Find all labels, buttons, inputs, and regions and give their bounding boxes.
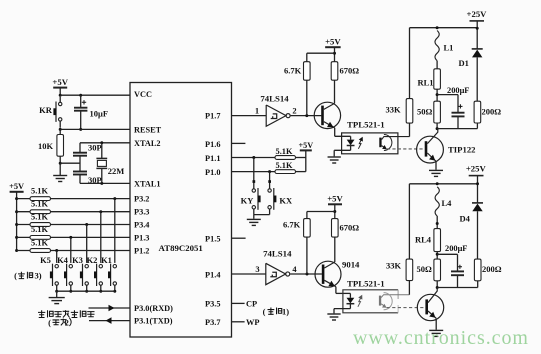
svg-text:6.7K: 6.7K [283, 220, 301, 230]
svg-text:WP: WP [246, 318, 260, 327]
svg-text:D4: D4 [460, 213, 471, 223]
svg-text:74LS14: 74LS14 [260, 93, 289, 103]
svg-text:XTAL1: XTAL1 [134, 179, 161, 188]
svg-text:P1.5: P1.5 [205, 235, 220, 244]
svg-text:200μF: 200μF [445, 244, 467, 253]
svg-text:KX: KX [279, 195, 293, 205]
svg-text:RL1: RL1 [418, 78, 434, 88]
svg-text:www.cntronics.com: www.cntronics.com [353, 327, 529, 349]
svg-text:L4: L4 [442, 198, 453, 208]
svg-text:P1.3: P1.3 [134, 233, 149, 242]
svg-text:TPL521-1: TPL521-1 [347, 279, 385, 289]
svg-text:K3: K3 [72, 255, 83, 265]
svg-text:200Ω: 200Ω [482, 106, 502, 116]
svg-text:P3.2: P3.2 [134, 195, 149, 204]
svg-text:VCC: VCC [134, 90, 152, 99]
svg-text:RESET: RESET [134, 125, 162, 134]
svg-text:3: 3 [255, 264, 259, 274]
svg-text:P3.1(TXD): P3.1(TXD) [134, 317, 173, 326]
svg-text:10K: 10K [38, 141, 54, 151]
svg-text:P3.4: P3.4 [134, 221, 149, 230]
svg-text:+25V: +25V [466, 164, 487, 174]
svg-text:74LS14: 74LS14 [263, 249, 292, 259]
svg-text:200μF: 200μF [447, 86, 469, 95]
svg-text:D1: D1 [459, 58, 469, 68]
svg-text:RL4: RL4 [415, 235, 432, 245]
svg-text:K1: K1 [101, 255, 112, 265]
svg-text:9014: 9014 [342, 260, 360, 270]
svg-text:670Ω: 670Ω [340, 222, 360, 232]
svg-text:30P: 30P [88, 175, 102, 185]
svg-text:KR: KR [39, 105, 53, 115]
svg-text:5.1K: 5.1K [31, 238, 48, 247]
svg-text:P1.0: P1.0 [205, 168, 220, 177]
svg-text:50Ω: 50Ω [417, 106, 433, 116]
svg-text:TPL521-1: TPL521-1 [347, 120, 385, 130]
svg-text:P3.5: P3.5 [205, 300, 220, 309]
svg-text:5.1K: 5.1K [31, 225, 48, 234]
svg-text:670Ω: 670Ω [340, 65, 360, 75]
svg-text:6.7K: 6.7K [284, 65, 302, 75]
svg-text:CP: CP [246, 300, 257, 309]
svg-text:5.1K: 5.1K [31, 212, 48, 221]
svg-text:P1.1: P1.1 [205, 154, 220, 163]
svg-text:+5V: +5V [325, 37, 341, 47]
svg-text:K2: K2 [87, 255, 98, 265]
svg-text:XTAL2: XTAL2 [134, 139, 161, 148]
svg-text:P1.7: P1.7 [205, 112, 220, 121]
svg-text:+5V: +5V [298, 141, 313, 150]
svg-text:(: ( [14, 271, 17, 281]
svg-text:5.1K: 5.1K [31, 186, 48, 195]
svg-text:K5: K5 [40, 255, 51, 265]
svg-text:+5V: +5V [52, 77, 68, 87]
svg-text:50Ω: 50Ω [417, 264, 433, 274]
svg-text:P1.2: P1.2 [134, 247, 149, 256]
svg-text:5.1K: 5.1K [276, 147, 293, 156]
svg-text:KY: KY [241, 195, 254, 205]
svg-text:22M: 22M [108, 166, 125, 176]
svg-text:P3.7: P3.7 [205, 318, 220, 327]
svg-text:3): 3) [34, 271, 41, 281]
svg-text:P1.4: P1.4 [205, 270, 220, 279]
svg-text:L1: L1 [444, 43, 454, 53]
svg-text:AT89C2051: AT89C2051 [159, 243, 203, 253]
svg-text:K4: K4 [57, 255, 69, 265]
svg-text:P3.0(RXD): P3.0(RXD) [134, 304, 173, 313]
svg-text:1): 1) [282, 306, 289, 316]
svg-text:10μF: 10μF [90, 109, 109, 119]
svg-text:2: 2 [292, 106, 296, 116]
svg-text:5.1K: 5.1K [276, 161, 293, 170]
svg-text:TIP122: TIP122 [448, 145, 476, 155]
svg-text:(: ( [48, 318, 51, 328]
svg-text:P3.3: P3.3 [134, 208, 149, 217]
svg-text:33K: 33K [386, 261, 402, 271]
svg-text:(: ( [263, 306, 266, 316]
svg-text:200Ω: 200Ω [482, 264, 502, 274]
svg-text:+5V: +5V [9, 182, 24, 191]
svg-text:33K: 33K [386, 105, 402, 115]
svg-text:1: 1 [255, 106, 259, 116]
svg-text:P1.6: P1.6 [205, 140, 220, 149]
svg-text:30P: 30P [88, 143, 102, 153]
svg-text:+25V: +25V [467, 9, 488, 19]
svg-text:5.1K: 5.1K [31, 200, 48, 209]
svg-text:+5V: +5V [327, 194, 343, 204]
